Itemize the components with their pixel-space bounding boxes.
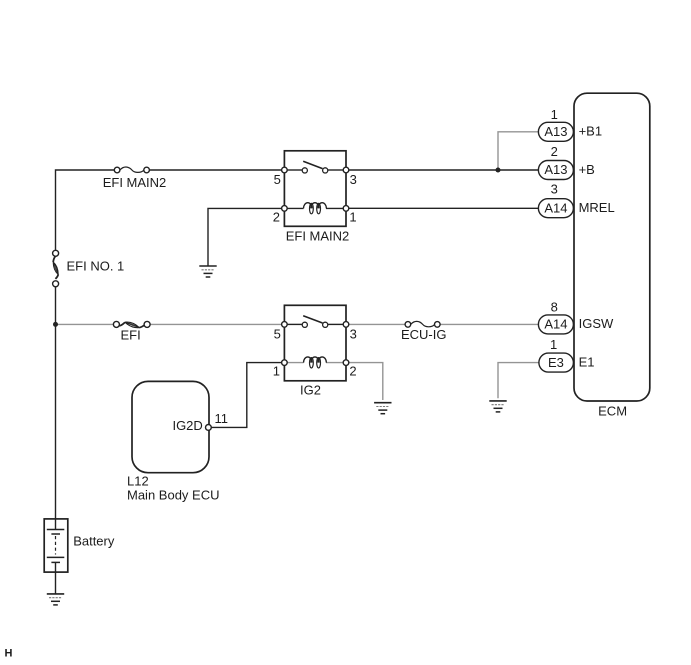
svg-text:11: 11 (215, 411, 229, 426)
label E1 (579, 354, 595, 369)
svg-text:2: 2 (349, 364, 356, 379)
svg-text:EFI NO. 1: EFI NO. 1 (67, 258, 125, 273)
pin number 2 (relay EFI MAIN2) (273, 209, 280, 224)
svg-text:A13: A13 (544, 162, 567, 177)
pin number 5 (relay IG2) (274, 326, 281, 341)
svg-text:ECU-IG: ECU-IG (401, 327, 447, 342)
svg-text:3: 3 (350, 172, 357, 187)
svg-text:A13: A13 (544, 124, 567, 139)
svg-text:3: 3 (350, 326, 357, 341)
svg-text:IGSW: IGSW (579, 316, 614, 331)
ground (relay EFI MAIN2 coil) (199, 266, 216, 277)
wire branch to +B1 (gray) (498, 132, 538, 168)
svg-text:A14: A14 (544, 200, 567, 215)
svg-text:E3: E3 (548, 355, 564, 370)
wire IG2 pin 2 to ground (gray) (349, 363, 383, 400)
svg-text:E1: E1 (579, 354, 595, 369)
L12 Main Body ECU block (132, 381, 209, 472)
svg-text:EFI MAIN2: EFI MAIN2 (103, 175, 167, 190)
node junction at +B branch (496, 168, 501, 173)
relay IG2 coil (287, 357, 343, 368)
pin number 1 (relay IG2) (273, 364, 280, 379)
svg-text:1: 1 (273, 364, 280, 379)
svg-text:IG2D: IG2D (172, 418, 202, 433)
label EFI (fuse) (120, 328, 140, 343)
label IGSW (579, 316, 614, 331)
svg-text:H: H (5, 648, 13, 660)
svg-text:+B1: +B1 (579, 124, 603, 139)
pin number 2 (relay IG2) (349, 364, 356, 379)
svg-text:IG2: IG2 (300, 383, 321, 398)
pin number 1 (relay EFI MAIN2) (349, 209, 356, 224)
label Battery (73, 534, 115, 549)
svg-text:Main Body ECU: Main Body ECU (127, 487, 219, 502)
pin terminal 11 (L12 IG2D) (206, 425, 212, 431)
relay IG2 box (284, 305, 346, 381)
wire junction to EFI fuse (gray, y=324.4) (56, 323, 114, 325)
label EFI NO. 1 (67, 258, 125, 273)
label +B (579, 162, 595, 177)
svg-text:5: 5 (274, 172, 281, 187)
wire EFI MAIN2 fuse to relay pin 5 (149, 169, 281, 171)
relay IG2 pin terminals (282, 322, 349, 366)
connector A13 pin 1 (+B1) (538, 122, 573, 141)
pin number 3 (A14 MREL) (551, 182, 558, 197)
label L12 (127, 474, 149, 489)
connector A14 pin 8 (IGSW) (538, 315, 573, 334)
ground (battery) (47, 594, 64, 605)
relay EFI MAIN2 switch (287, 161, 343, 173)
label H (page index) (5, 648, 13, 660)
wire relay pin 1 to MREL oval (349, 207, 539, 209)
svg-text:+B: +B (579, 162, 595, 177)
svg-text:2: 2 (551, 144, 558, 159)
svg-text:Battery: Battery (73, 534, 115, 549)
svg-text:EFI MAIN2: EFI MAIN2 (286, 229, 350, 244)
svg-text:8: 8 (551, 299, 558, 314)
relay EFI MAIN2 pin terminals (282, 167, 349, 211)
pin number 2 (A13 +B) (551, 144, 558, 159)
ground (E1) (489, 401, 506, 412)
pin number 5 (relay EFI MAIN2) (274, 172, 281, 187)
svg-text:1: 1 (551, 107, 558, 122)
svg-text:2: 2 (273, 209, 280, 224)
pin number 11 (L12) (215, 411, 229, 426)
relay IG2 switch (287, 316, 343, 328)
relay EFI MAIN2 coil (287, 203, 343, 214)
svg-text:ECM: ECM (598, 404, 627, 419)
fuse ECU-IG (405, 321, 440, 327)
pin number 3 (relay EFI MAIN2) (350, 172, 357, 187)
pin number 1 (E3 E1) (550, 337, 557, 352)
label ECU-IG (fuse) (401, 327, 447, 342)
svg-text:A14: A14 (544, 317, 567, 332)
fusible link EFI (horizontal) (113, 321, 150, 327)
label MREL (579, 200, 615, 215)
label EFI MAIN2 (fuse) (103, 175, 167, 190)
pin number 1 (A13 +B1) (551, 107, 558, 122)
wire ECU-IG fuse to IGSW oval (gray) (440, 323, 538, 325)
wire EFI fuse to IG2 relay pin 5 (gray) (150, 323, 282, 325)
relay EFI MAIN2 box (284, 151, 346, 227)
label ECM (598, 404, 627, 419)
connector A14 pin 3 (MREL) (538, 199, 573, 218)
wire relay pin 2 to ground (y=208.4) (208, 208, 282, 266)
fusible link EFI NO. 1 (vertical) (53, 250, 59, 286)
svg-text:1: 1 (349, 209, 356, 224)
label IG2D (172, 418, 202, 433)
pin number 3 (relay IG2) (350, 326, 357, 341)
label EFI MAIN2 (relay) (286, 229, 350, 244)
label Main Body ECU (127, 487, 219, 502)
svg-text:1: 1 (550, 337, 557, 352)
svg-text:MREL: MREL (579, 200, 615, 215)
label IG2 (relay) (300, 383, 321, 398)
wire battery riser (x=55.5) (55, 287, 57, 529)
pin number 8 (A14 IGSW) (551, 299, 558, 314)
node junction on riser (53, 322, 58, 327)
wire riser top to EFI MAIN2 fuse (y=170) (56, 170, 115, 251)
wire L12 pin 11 to IG2 relay pin 1 (211, 363, 281, 428)
ECM block (574, 93, 650, 401)
fuse EFI MAIN2 (114, 167, 149, 173)
wire E3 oval to ground (gray) (498, 363, 539, 399)
ground (IG2 pin 2) (374, 403, 391, 414)
battery (44, 519, 68, 594)
svg-text:EFI: EFI (120, 328, 140, 343)
svg-text:5: 5 (274, 326, 281, 341)
connector E3 pin 1 (E1) (539, 353, 574, 372)
wire IG2 relay pin 3 to ECU-IG fuse (gray) (349, 323, 405, 325)
svg-text:3: 3 (551, 182, 558, 197)
connector A13 pin 2 (+B) (538, 161, 573, 180)
label +B1 (579, 124, 603, 139)
wire relay pin 3 to +B oval (y=170) (349, 169, 539, 171)
